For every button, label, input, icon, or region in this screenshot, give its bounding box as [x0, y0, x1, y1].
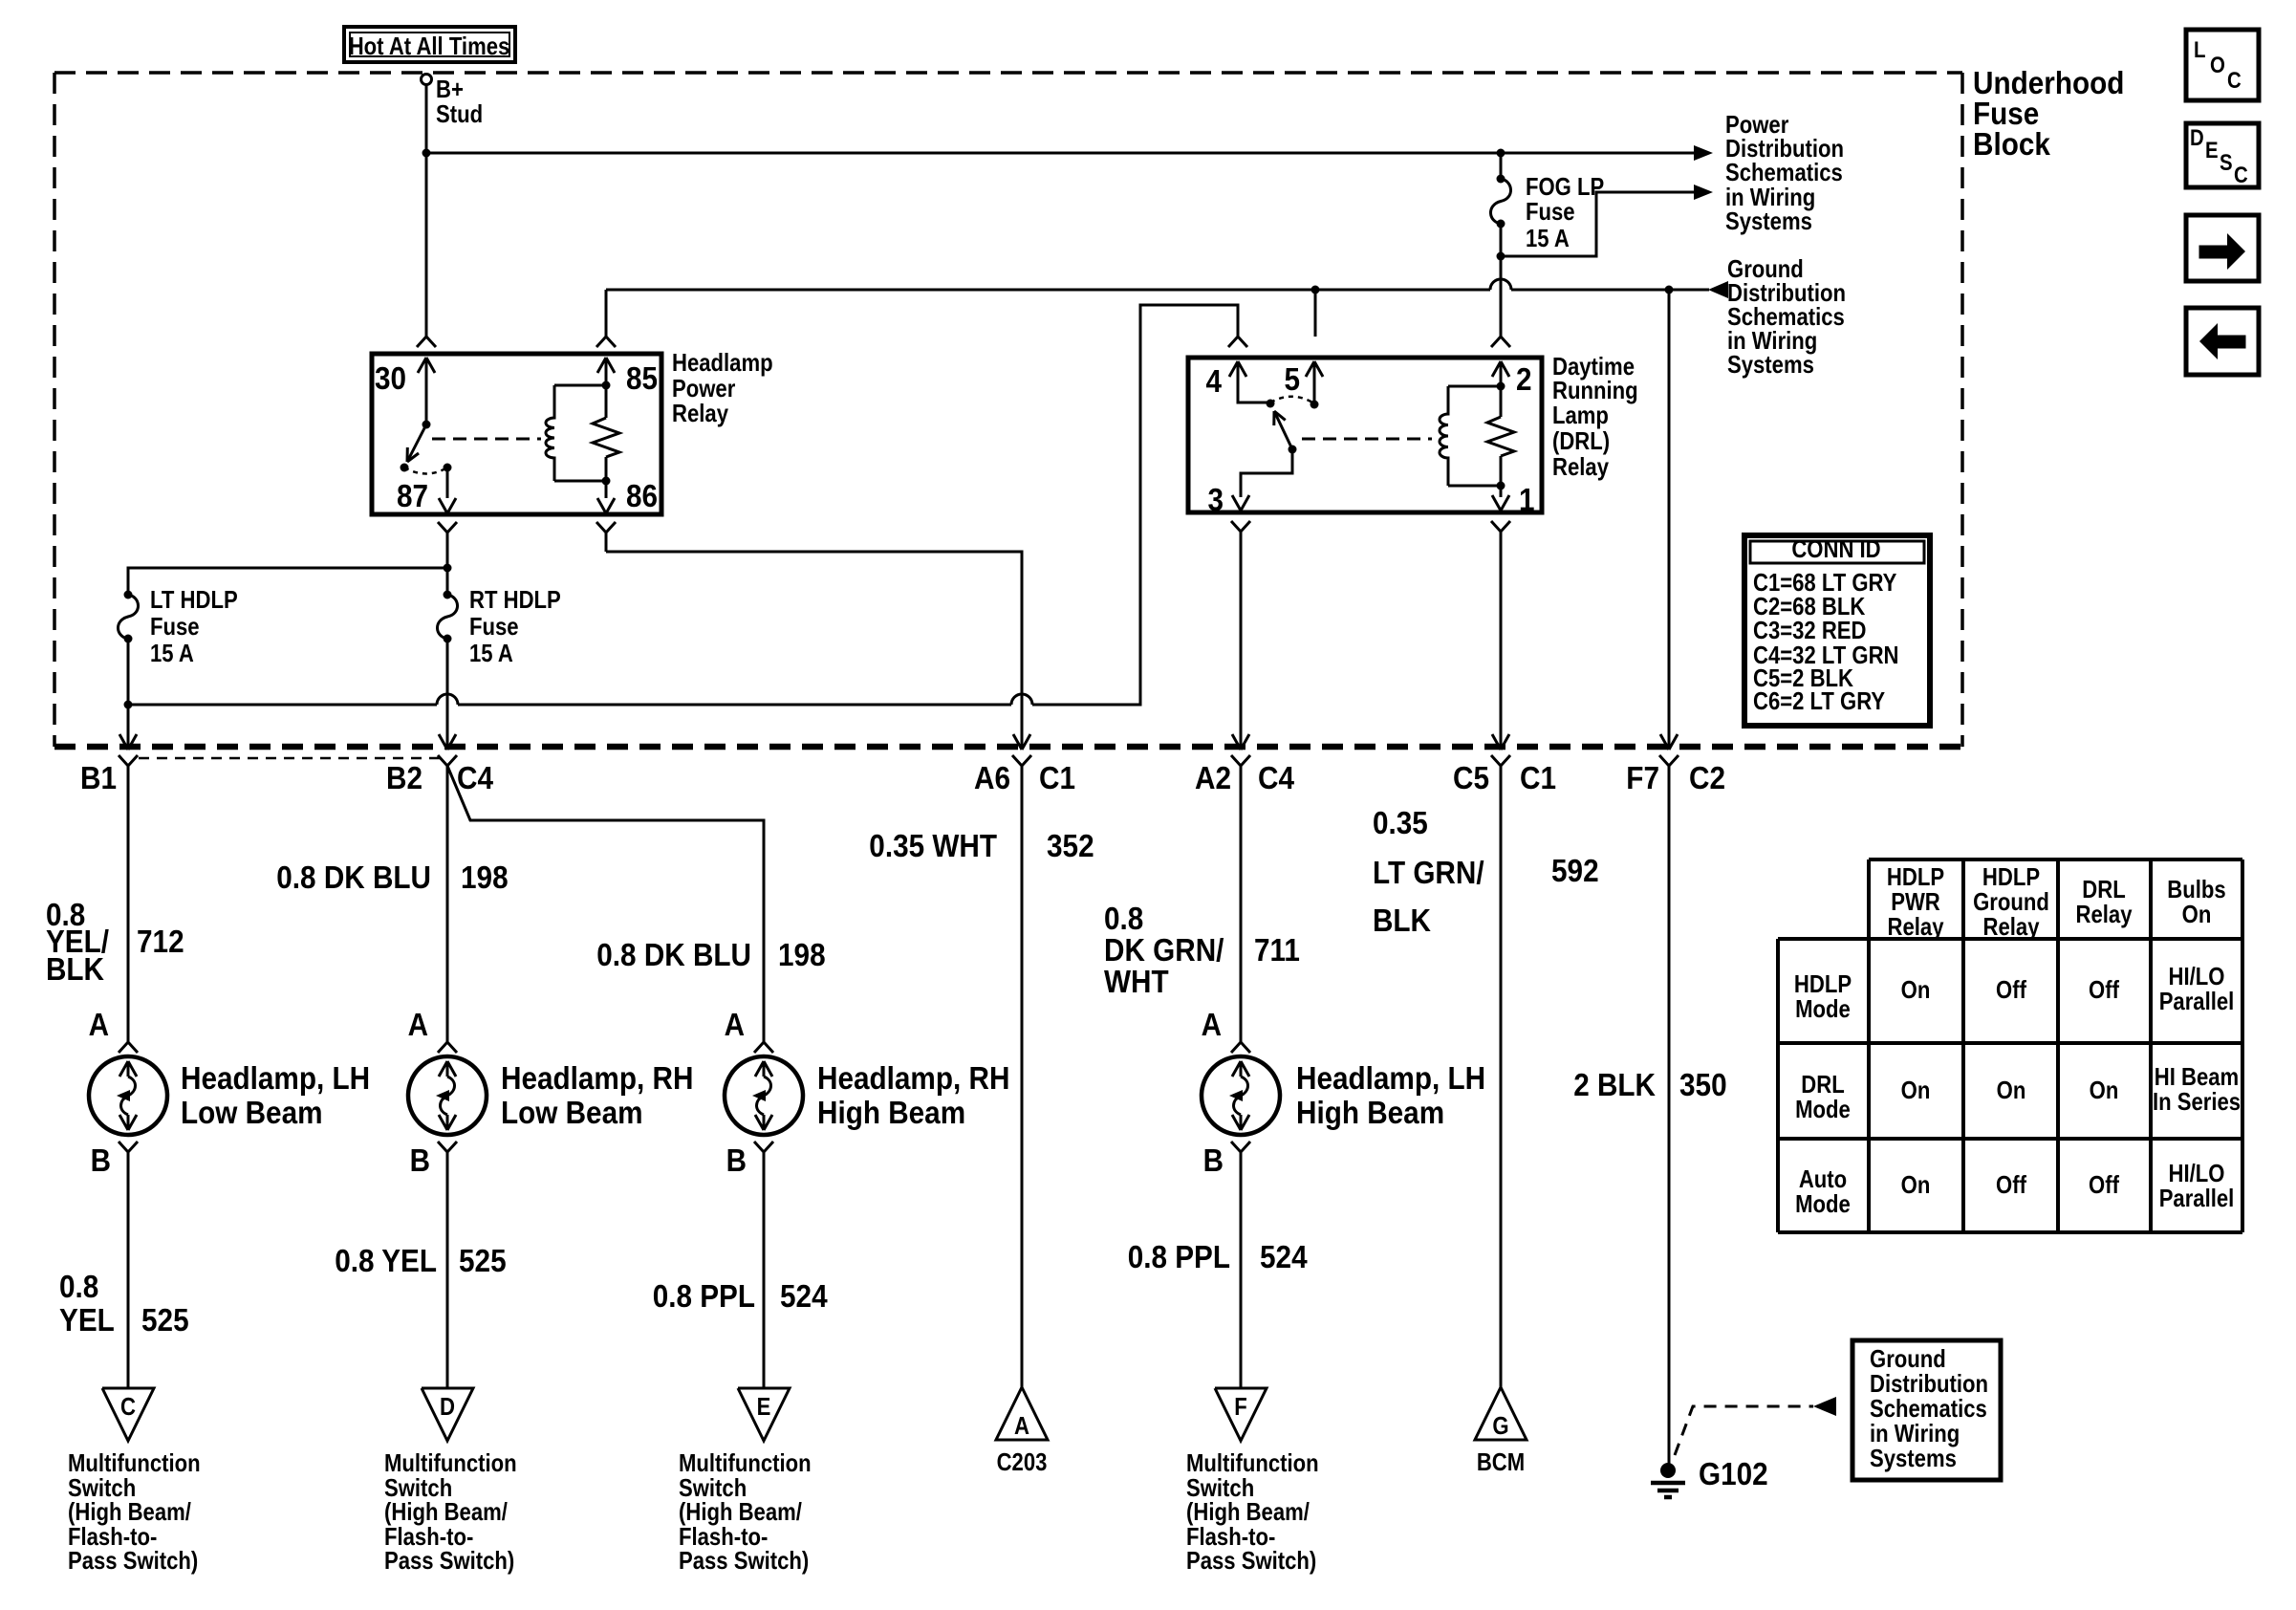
svg-text:30: 30	[375, 360, 406, 396]
connector triangle E	[738, 1388, 790, 1441]
svg-text:3: 3	[1208, 482, 1224, 517]
icon arrow left	[2186, 308, 2259, 375]
wire DRL pin4 feed (hops B2 and A6)	[128, 305, 1238, 705]
svg-text:E: E	[757, 1392, 771, 1421]
svg-text:0.8 DK BLU: 0.8 DK BLU	[276, 859, 431, 895]
coil DRL	[1440, 386, 1448, 486]
icon arrow right	[2186, 215, 2259, 281]
label 0.8 DK BLU 198	[276, 859, 508, 895]
svg-text:Headlamp: Headlamp	[672, 348, 773, 377]
connector triangle G (BCM)	[1475, 1387, 1527, 1476]
svg-text:350: 350	[1679, 1067, 1727, 1102]
pin 1 DRL	[1492, 482, 1535, 517]
svg-text:F: F	[1234, 1392, 1247, 1421]
svg-text:711: 711	[1254, 932, 1300, 968]
svg-text:Block: Block	[1973, 126, 2050, 162]
svg-text:A: A	[1014, 1411, 1029, 1440]
wire HPR pin87 down	[446, 533, 449, 568]
connector F7/C2 at fuse block boundary	[1626, 734, 1725, 795]
lamp Headlamp, LH High Beam	[1202, 1007, 1486, 1178]
svg-text:592: 592	[1551, 853, 1599, 888]
wire 352 (A6 to C203)	[1021, 766, 1024, 1387]
svg-text:A2: A2	[1195, 760, 1231, 795]
svg-text:Mode: Mode	[1795, 1189, 1851, 1218]
connector chevron HPR pin86 below	[596, 522, 616, 533]
svg-text:B: B	[91, 1142, 111, 1178]
underhood fuse block dashed border (right)	[1960, 73, 1964, 747]
arrow from Ground Distribution	[1708, 281, 1728, 298]
svg-text:Pass Switch): Pass Switch)	[679, 1546, 809, 1575]
svg-text:B: B	[410, 1142, 430, 1178]
connector chevron HPR pin85	[596, 337, 616, 347]
wire FOG fuse output	[1500, 224, 1503, 256]
contact NO HPR	[401, 464, 409, 472]
icon LOC	[2186, 30, 2259, 100]
svg-text:524: 524	[780, 1278, 828, 1314]
svg-text:Relay: Relay	[672, 399, 728, 427]
svg-text:15 A: 15 A	[1526, 224, 1570, 252]
svg-text:D: D	[2190, 125, 2204, 151]
fuse RT HDLP 15A	[437, 568, 560, 667]
svg-text:524: 524	[1260, 1239, 1308, 1274]
lamp Headlamp, RH High Beam	[725, 1007, 1010, 1178]
svg-text:C2: C2	[1689, 760, 1725, 795]
wire 712 (B1 to LH low beam)	[127, 766, 130, 1042]
CONN ID table	[1744, 534, 1930, 726]
label 2 BLK 350	[1573, 1067, 1726, 1102]
switch arm DRL	[1274, 411, 1292, 449]
connector chevron DRL pin3 below	[1231, 521, 1250, 532]
wire 198 (B2 down)	[446, 766, 449, 1042]
svg-text:LT GRN/: LT GRN/	[1373, 855, 1484, 890]
svg-text:C: C	[120, 1392, 136, 1421]
svg-text:On: On	[1997, 1076, 2026, 1104]
svg-text:C5: C5	[1453, 760, 1489, 795]
pin 3 DRL	[1208, 449, 1293, 517]
svg-text:Systems: Systems	[1870, 1444, 1957, 1472]
svg-text:0.8 YEL: 0.8 YEL	[335, 1243, 437, 1278]
svg-text:4: 4	[1206, 363, 1223, 399]
coil HPR	[546, 385, 554, 481]
label Multifunction Switch	[384, 1448, 517, 1575]
svg-text:Stud: Stud	[436, 99, 483, 128]
connector triangle D	[422, 1388, 473, 1441]
svg-text:Headlamp, RH: Headlamp, RH	[501, 1060, 693, 1096]
resistor HPR	[593, 385, 619, 481]
label 0.35 LT GRN/BLK 592	[1373, 805, 1599, 938]
arrow to Power Distribution (fog lamp feed)	[1694, 185, 1713, 200]
svg-text:15 A: 15 A	[150, 639, 194, 667]
label Daytime Running Lamp (DRL) Relay	[1552, 352, 1638, 481]
wire HPR pin 85 riser	[606, 290, 1315, 337]
junction FOG LP tap	[1497, 149, 1505, 158]
contact common DRL	[1289, 446, 1297, 454]
connector C5/C1 at fuse block boundary	[1453, 734, 1556, 795]
wire FOG LP fuse feed	[1500, 153, 1503, 179]
svg-text:Off: Off	[2089, 975, 2119, 1004]
Ground Distribution Schematics box	[1852, 1340, 2001, 1480]
wire main battery feed bus	[426, 152, 1695, 155]
label 0.8 DK BLU 198 (high beam)	[596, 937, 825, 972]
label 0.8 DK GRN/WHT 711	[1104, 901, 1300, 999]
wire DRL pin5 from bus	[1314, 290, 1317, 337]
svg-text:YEL: YEL	[59, 1302, 115, 1338]
svg-text:C1: C1	[1039, 760, 1075, 795]
label 0.8 YEL 525 (lamp1)	[59, 1269, 189, 1338]
connector triangle F	[1215, 1388, 1267, 1441]
svg-text:Headlamp, LH: Headlamp, LH	[1296, 1060, 1485, 1096]
ground G102	[1651, 1456, 1768, 1497]
wire lamp2 B to D	[446, 1152, 449, 1388]
svg-text:Off: Off	[1996, 975, 2026, 1004]
svg-text:O: O	[2210, 53, 2225, 78]
wire FOG output down to DRL pin 2	[1500, 256, 1503, 337]
svg-text:2: 2	[1516, 361, 1532, 397]
junction DRL pivot	[1267, 400, 1275, 408]
svg-text:198: 198	[778, 937, 826, 972]
svg-text:Fuse: Fuse	[1526, 197, 1575, 226]
label Underhood Fuse Block	[1973, 65, 2124, 162]
connector chevron DRL pin4	[1228, 337, 1247, 347]
svg-text:A: A	[725, 1007, 745, 1042]
svg-text:Off: Off	[1996, 1170, 2026, 1199]
svg-text:B: B	[726, 1142, 747, 1178]
svg-text:D: D	[440, 1392, 455, 1421]
dashed connector link B1-B2	[139, 757, 444, 760]
svg-text:On: On	[1901, 975, 1931, 1004]
svg-text:2 BLK: 2 BLK	[1573, 1067, 1656, 1102]
svg-text:85: 85	[626, 360, 658, 396]
underhood fuse block dashed border (top)	[54, 71, 1962, 75]
svg-text:On: On	[2182, 900, 2212, 928]
relay logic mode table	[1778, 859, 2242, 1232]
pin 87 HPR	[397, 468, 456, 513]
wire RT fuse output down	[446, 639, 449, 747]
svg-text:G: G	[1492, 1411, 1508, 1440]
connector chevron DRL pin2	[1491, 337, 1510, 347]
svg-text:1: 1	[1519, 482, 1535, 517]
coil bottom link HPR	[554, 477, 611, 486]
svg-text:525: 525	[141, 1302, 189, 1338]
svg-text:WHT: WHT	[1104, 964, 1169, 999]
svg-text:Pass Switch): Pass Switch)	[384, 1546, 514, 1575]
coil bottom link DRL	[1448, 482, 1505, 490]
svg-text:RT HDLP: RT HDLP	[469, 585, 561, 614]
wire LT fuse output down	[127, 639, 130, 747]
junction HPR switch pivot	[422, 421, 431, 429]
fuse FOG LP 15A	[1490, 172, 1604, 252]
svg-text:DK GRN/: DK GRN/	[1104, 932, 1224, 968]
svg-text:Fuse: Fuse	[150, 612, 200, 641]
wire C4 branch to RH high beam	[447, 766, 764, 1042]
wire HPR pin86 to C203 drop	[606, 533, 1022, 747]
resistor DRL	[1487, 386, 1514, 486]
svg-text:5: 5	[1285, 361, 1301, 397]
svg-text:Mode: Mode	[1795, 994, 1851, 1023]
switch arm HPR	[407, 424, 426, 462]
svg-text:A: A	[89, 1007, 109, 1042]
relay box Daytime Running Lamp Relay	[1188, 358, 1542, 512]
svg-text:A6: A6	[974, 760, 1010, 795]
pin 5 stub DRL	[1285, 361, 1324, 409]
svg-text:C4: C4	[1258, 760, 1295, 795]
coil top link DRL	[1448, 382, 1505, 391]
label Ground Distribution Schematics	[1727, 254, 1846, 379]
svg-text:B2: B2	[386, 760, 422, 795]
junction FOG fuse output	[1497, 252, 1505, 261]
contact to pin 87	[444, 464, 452, 472]
svg-text:Low Beam: Low Beam	[501, 1095, 643, 1130]
connector chevron HPR pin87 below	[438, 522, 457, 533]
svg-text:712: 712	[137, 924, 184, 959]
label Multifunction Switch	[1186, 1448, 1319, 1575]
pin 30 HPR	[375, 358, 435, 424]
svg-text:0.35 WHT: 0.35 WHT	[869, 828, 997, 863]
wire DRL pin3 to A2	[1240, 532, 1243, 747]
connector chevron DRL pin1 below	[1491, 521, 1510, 532]
svg-text:Relay: Relay	[1552, 452, 1609, 481]
pin 2 DRL	[1492, 361, 1532, 397]
svg-text:Parallel: Parallel	[2159, 1184, 2235, 1212]
svg-text:Relay: Relay	[2076, 900, 2133, 928]
svg-text:A: A	[408, 1007, 428, 1042]
svg-text:Fuse: Fuse	[469, 612, 519, 641]
svg-text:0.8: 0.8	[1104, 901, 1143, 936]
svg-text:Pass Switch): Pass Switch)	[1186, 1546, 1316, 1575]
wire DRL pin1 to C5	[1500, 532, 1503, 747]
svg-text:F7: F7	[1626, 760, 1659, 795]
connector B1/ at fuse block boundary	[80, 734, 138, 795]
label 0.8 PPL 524 (lamp4)	[1128, 1239, 1308, 1274]
label Power Distribution Schematics	[1725, 110, 1844, 235]
label 0.8 YEL/BLK 712	[46, 897, 184, 987]
dashed actuation link HPR	[432, 438, 541, 441]
wire 592 (C5 to BCM)	[1500, 766, 1503, 1387]
label 0.8 PPL 524 (lamp3)	[653, 1278, 828, 1314]
svg-text:BCM: BCM	[1477, 1447, 1525, 1476]
svg-text:Systems: Systems	[1725, 207, 1812, 235]
svg-text:352: 352	[1047, 828, 1094, 863]
wire FOG output to Power Distribution arrow	[1501, 192, 1696, 256]
svg-text:86: 86	[626, 478, 658, 513]
svg-text:B1: B1	[80, 760, 117, 795]
svg-text:198: 198	[461, 859, 509, 895]
wire lamp3 B to E	[763, 1152, 766, 1388]
svg-text:On: On	[1901, 1076, 1931, 1104]
svg-text:Headlamp, LH: Headlamp, LH	[181, 1060, 370, 1096]
svg-text:CONN ID: CONN ID	[1791, 534, 1880, 563]
arrow from Ground Distribution (bottom)	[1813, 1397, 1836, 1416]
connector triangle C	[102, 1388, 154, 1441]
svg-text:A: A	[1202, 1007, 1222, 1042]
svg-text:525: 525	[459, 1243, 507, 1278]
svg-text:In Series: In Series	[2153, 1087, 2241, 1116]
svg-text:0.35: 0.35	[1373, 805, 1428, 840]
wire lamp4 B to F	[1240, 1152, 1243, 1388]
svg-text:Hot At All Times: Hot At All Times	[349, 32, 510, 60]
junction F7 drop	[1665, 286, 1674, 294]
fuse LT HDLP 15A	[118, 585, 237, 667]
connector A2/C4 at fuse block boundary	[1195, 734, 1295, 795]
connector chevron HPR pin30	[417, 337, 436, 347]
svg-text:Pass Switch): Pass Switch)	[68, 1546, 198, 1575]
svg-text:BLK: BLK	[1373, 903, 1431, 938]
svg-text:C: C	[2227, 68, 2242, 94]
arrow to Power Distribution (battery feed)	[1694, 145, 1713, 161]
wire 350 (F7 to G102)	[1668, 766, 1671, 1464]
svg-text:Off: Off	[2089, 1170, 2119, 1199]
svg-text:B: B	[1203, 1142, 1224, 1178]
svg-text:C203: C203	[997, 1447, 1048, 1476]
junction RT fuse feed	[444, 564, 452, 573]
pin 86 HPR	[597, 478, 658, 513]
svg-text:0.8: 0.8	[59, 1269, 98, 1304]
label Multifunction Switch	[679, 1448, 812, 1575]
svg-text:C6=2 LT GRY: C6=2 LT GRY	[1753, 686, 1885, 715]
svg-text:0.8 DK BLU: 0.8 DK BLU	[596, 937, 751, 972]
svg-text:Mode: Mode	[1795, 1095, 1851, 1123]
svg-text:15 A: 15 A	[469, 639, 513, 667]
svg-text:On: On	[1901, 1170, 1931, 1199]
dashed contact arc HPR	[404, 468, 447, 474]
wire F7 ground drop	[1668, 290, 1671, 747]
wire lamp1 B to C	[127, 1152, 130, 1388]
wire feed to LT fuse	[128, 568, 447, 595]
icon DESC	[2186, 123, 2259, 188]
underhood fuse block dashed border (left)	[53, 73, 56, 747]
underhood fuse block dashed border (bottom)	[54, 744, 1962, 751]
svg-text:C: C	[2234, 163, 2248, 188]
svg-text:Systems: Systems	[1727, 350, 1814, 379]
Hot At All Times box	[344, 27, 515, 62]
svg-text:C1: C1	[1520, 760, 1556, 795]
svg-text:0.8 PPL: 0.8 PPL	[653, 1278, 755, 1314]
svg-text:Headlamp, RH: Headlamp, RH	[817, 1060, 1009, 1096]
label 0.35 WHT 352	[869, 828, 1094, 863]
svg-text:Relay: Relay	[1888, 912, 1944, 941]
svg-text:High Beam: High Beam	[817, 1095, 965, 1130]
svg-text:(DRL): (DRL)	[1552, 426, 1610, 455]
svg-text:E: E	[2205, 138, 2219, 163]
label Multifunction Switch	[68, 1448, 201, 1575]
junction LT fuse output branch	[124, 701, 133, 709]
svg-text:LT HDLP: LT HDLP	[150, 585, 238, 614]
wire B+ stud down to feed junction	[425, 84, 428, 153]
junction B+ feed	[422, 149, 431, 158]
svg-text:G102: G102	[1699, 1456, 1768, 1491]
B+ stud terminal	[422, 75, 484, 129]
wire ground bus to F7 drop	[1315, 279, 1709, 290]
lamp Headlamp, LH Low Beam	[89, 1007, 371, 1178]
svg-text:C4: C4	[457, 760, 494, 795]
svg-text:L: L	[2194, 37, 2206, 63]
svg-text:Relay: Relay	[1983, 912, 2040, 941]
label Headlamp Power Relay	[672, 348, 773, 427]
junction DRL pin 5 tap	[1311, 286, 1320, 294]
dashed link to Ground Distribution box	[1675, 1406, 1813, 1455]
connector triangle A (C203)	[996, 1387, 1048, 1476]
svg-text:On: On	[2090, 1076, 2119, 1104]
svg-text:0.8 PPL: 0.8 PPL	[1128, 1239, 1230, 1274]
svg-text:S: S	[2220, 150, 2233, 176]
relay box Headlamp Power Relay	[372, 354, 661, 514]
wire 711 (A2 to LH high beam)	[1240, 766, 1243, 1042]
wire B+ down to relay pin 30	[425, 153, 428, 337]
svg-text:Parallel: Parallel	[2159, 987, 2235, 1015]
connector A6/C1 at fuse block boundary	[974, 734, 1075, 795]
label 0.8 YEL 525 (lamp2)	[335, 1243, 506, 1278]
dashed contact arc DRL	[1270, 397, 1314, 403]
svg-text:Low Beam: Low Beam	[181, 1095, 323, 1130]
dashed actuation link DRL	[1302, 438, 1432, 441]
pin 4 DRL	[1206, 361, 1271, 402]
svg-text:Lamp: Lamp	[1552, 401, 1609, 429]
pin 85 HPR	[597, 358, 658, 396]
coil top link HPR	[554, 381, 611, 390]
connector B2/C4 at fuse block boundary	[386, 734, 494, 795]
lamp Headlamp, RH Low Beam	[408, 1007, 694, 1178]
svg-text:87: 87	[397, 478, 428, 513]
svg-text:BLK: BLK	[46, 951, 104, 987]
svg-text:High Beam: High Beam	[1296, 1095, 1444, 1130]
